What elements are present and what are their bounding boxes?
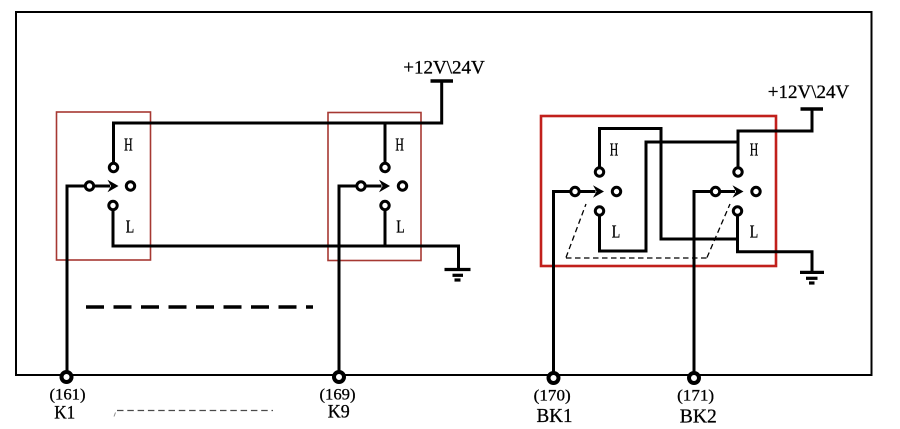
wire BK1 L contact crossover to BK2 H: [600, 142, 739, 251]
dashed lever BK1: [566, 204, 586, 258]
relay box K1: [57, 112, 151, 260]
dashed mechanical link line (BK box): [566, 257, 707, 259]
contact circle K9 middle: [398, 182, 406, 190]
arrow BK2 switch: [716, 190, 736, 193]
contact circle BK2 H: [734, 168, 742, 176]
wire K9 L contact to bottom rail: [384, 206, 387, 247]
svg-text:(161): (161): [50, 387, 86, 404]
contact circle K9 L: [381, 201, 389, 209]
terminal 161: [62, 372, 72, 382]
svg-text:L: L: [396, 217, 405, 237]
contact circle K1 middle: [126, 182, 134, 190]
relay box BK1/BK2: [541, 116, 776, 266]
svg-text:K1: K1: [54, 403, 75, 424]
ground symbol (K9 side): [445, 270, 471, 281]
svg-text:H: H: [610, 140, 619, 160]
stray mark at dashed line start: [114, 413, 116, 417]
terminal 170: [549, 373, 559, 383]
contact circle BK1 middle: [612, 187, 620, 195]
wire K9 H contact to rail: [384, 123, 387, 168]
dashed lever BK2: [707, 204, 730, 258]
svg-text:H: H: [750, 140, 759, 160]
wire K1 common to terminal 161: [67, 186, 90, 375]
contact circle BK1 common: [571, 187, 579, 195]
svg-text:H: H: [395, 135, 404, 155]
svg-text:+12V\24V: +12V\24V: [403, 58, 485, 79]
wire BK2 L contact to ground: [738, 211, 813, 272]
arrow K9 switch: [361, 185, 382, 188]
contact circle K9 H: [381, 163, 389, 171]
svg-text:+12V\24V: +12V\24V: [768, 82, 850, 103]
wire BK1 common to terminal 170: [554, 192, 576, 376]
contact circle BK2 common: [711, 187, 719, 195]
svg-text:BK1: BK1: [537, 405, 573, 427]
wire K9 common to terminal 169: [339, 186, 361, 375]
contact circle K9 common: [357, 182, 365, 190]
svg-text:K9: K9: [328, 402, 350, 423]
svg-text:L: L: [750, 222, 759, 242]
svg-text:L: L: [126, 217, 135, 237]
relay box K9: [328, 113, 421, 261]
svg-text:L: L: [612, 222, 621, 242]
svg-text:(170): (170): [534, 388, 571, 405]
wire K1 H contact to +12V rail and power drop: [114, 81, 442, 168]
ground symbol (BK side): [800, 272, 824, 283]
arrow BK1 switch: [575, 190, 596, 193]
thick dashed link line between K1 and K9: [86, 305, 313, 309]
contact circle BK2 middle: [752, 187, 760, 195]
contact circle K1 common: [85, 182, 93, 190]
power +12V\24V bar (K9): [431, 79, 454, 83]
svg-text:(171): (171): [677, 388, 714, 405]
thin dashed line between K1 and K9 labels: [117, 410, 273, 412]
wire BK2 common to terminal 171: [694, 192, 716, 376]
wire BK1 H contact crossover to BK2 L: [600, 129, 738, 240]
contact circle BK1 L: [595, 207, 603, 215]
wire BK2 H contact to +12V power drop: [738, 109, 812, 172]
contact circle BK2 L: [733, 207, 741, 215]
wire K1 L contact to bottom rail to ground: [113, 206, 459, 271]
contact circle K1 H: [109, 163, 117, 171]
arrow K1 switch: [90, 185, 111, 188]
power +12V\24V bar (BK): [801, 107, 824, 111]
terminal 169: [334, 372, 344, 382]
terminal 171: [689, 373, 699, 383]
svg-text:BK2: BK2: [680, 406, 717, 428]
contact circle BK1 H: [595, 168, 603, 176]
svg-text:H: H: [124, 135, 133, 155]
contact circle K1 L: [109, 201, 117, 209]
